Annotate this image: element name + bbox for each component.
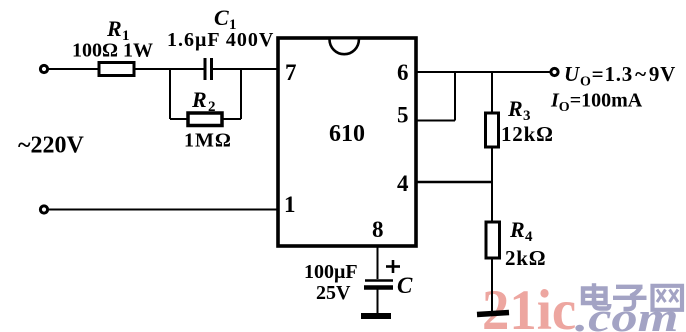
svg-text:IO=100mA: IO=100mA [550,90,643,116]
svg-text:1.6μF 400V: 1.6μF 400V [167,29,274,51]
svg-text:UO=1.3~9V: UO=1.3~9V [564,62,676,90]
wire R3 top drop [491,72,493,113]
svg-text:~220V: ~220V [18,133,84,159]
svg-text:2kΩ: 2kΩ [505,246,546,270]
wire pin 5 up to pin 6 [454,72,456,121]
svg-text:6: 6 [397,60,409,85]
wire from R1 to C1 [134,68,204,70]
svg-text:21ic: 21ic [482,279,576,332]
svg-text:R: R [507,96,523,121]
svg-text:100Ω 1W: 100Ω 1W [72,40,153,62]
svg-text:4: 4 [525,229,533,245]
resistor R4 [486,222,500,258]
watermark CJK zi [613,287,647,309]
ground under R4 [477,313,509,315]
IC notch [330,40,359,55]
svg-text:1MΩ: 1MΩ [184,130,232,152]
resistor R1 [99,63,134,76]
watermark 21ic [482,279,576,332]
wire pin 8 down [377,246,379,279]
wire loop bottom-right from R2 [222,118,241,120]
wire loop left vertical [169,69,171,119]
svg-text:1: 1 [284,192,296,217]
IC U1 610 body [278,38,416,246]
terminal upper-left input [40,65,47,72]
wire pin 6 output [416,71,551,73]
wire pin 4 to node [416,181,493,183]
svg-text:8: 8 [372,217,384,242]
watermark CJK dian [583,283,609,308]
svg-text:R: R [106,16,122,41]
capacitor C plate top [365,279,393,282]
svg-text:R: R [191,87,207,112]
svg-text:C: C [214,5,229,30]
wire R4 to ground [491,258,493,313]
wire top from terminal to R1 [48,68,99,70]
svg-text:5: 5 [397,103,409,128]
ground under C [361,313,391,319]
wire R3 to junction and R4 [491,147,493,222]
wire C to ground [377,289,379,314]
svg-text:610: 610 [329,121,365,147]
resistor R3 [486,113,499,147]
svg-text:100μF: 100μF [304,261,358,283]
watermark .com [575,295,678,332]
wire pin 5 horizontal [416,120,455,122]
terminal output [551,68,558,75]
svg-text:7: 7 [285,60,297,85]
svg-text:2: 2 [208,99,216,115]
watermark CJK wang [653,286,683,310]
svg-text:4: 4 [397,171,409,196]
wire loop right vertical [240,69,242,119]
svg-text:C: C [397,273,413,298]
capacitor C1 [204,58,207,80]
svg-text:12kΩ: 12kΩ [501,122,554,146]
wire loop bottom-left to R2 [170,118,188,120]
terminal lower-left input [40,206,47,213]
wire from C1 to pin 7 [212,68,277,70]
svg-text:R: R [509,217,525,242]
svg-text:25V: 25V [316,282,351,304]
plus sign of C [386,265,400,268]
capacitor C plate bottom [364,285,393,290]
wire bottom from terminal to pin 1 [48,209,277,211]
resistor R2 [188,113,222,126]
